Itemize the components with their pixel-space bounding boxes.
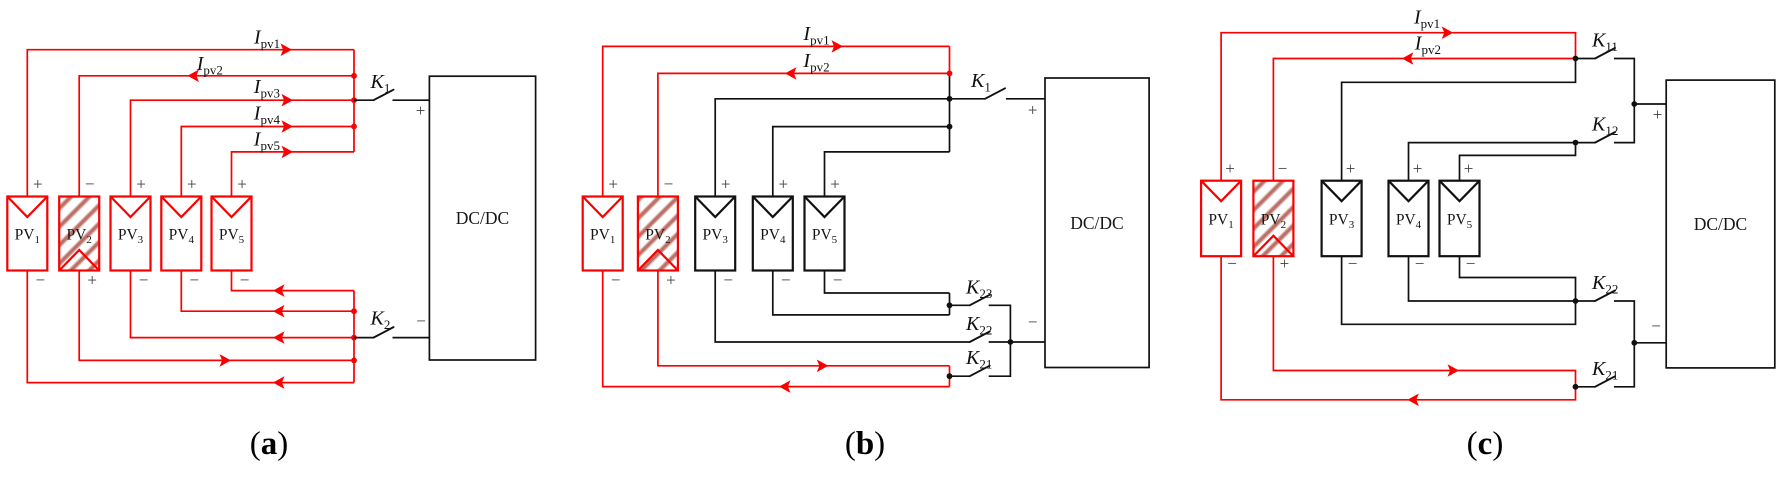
svg-text:+: + xyxy=(136,175,146,194)
svg-text:−: − xyxy=(1227,254,1237,273)
svg-text:−: − xyxy=(416,312,426,331)
svg-text:+: + xyxy=(830,175,840,194)
wire positive to DC/DC (c) xyxy=(1634,103,1666,105)
PV module PV2 (b) xyxy=(638,197,678,271)
arrow PV1 return (c) xyxy=(1407,394,1419,407)
wire PV3 top to K11 (c) xyxy=(1342,59,1576,181)
junction PV3/K1 (b) xyxy=(947,96,953,102)
arrow Ipv2 (a) xyxy=(188,70,200,83)
junction Ipv4/bus (a) xyxy=(351,124,357,130)
PV module PV4 (c) xyxy=(1389,181,1429,257)
switch K2 (a) blade xyxy=(374,327,394,338)
PV module PV2 (c) xyxy=(1253,181,1293,257)
PV module PV4 (b) xyxy=(753,197,793,271)
converter DC/DC (b) xyxy=(1045,78,1149,368)
wire PV1 bottom to bus (a) xyxy=(27,271,354,383)
wire K22 output (c) xyxy=(1614,301,1634,343)
svg-text:−: − xyxy=(1028,313,1038,332)
wire top bus red segment (b) xyxy=(949,46,951,73)
svg-text:+: + xyxy=(666,271,676,290)
PV module PV1 (a) xyxy=(7,197,47,271)
svg-text:(c): (c) xyxy=(1467,426,1504,462)
switch K11 (c) blade xyxy=(1595,48,1615,59)
wire PV5 top to K12 (c) xyxy=(1460,143,1576,181)
switch K21 (b) blade xyxy=(970,366,990,377)
PV module PV1 (c) xyxy=(1201,181,1241,257)
svg-text:−: − xyxy=(190,271,200,290)
junction K21 input (b) xyxy=(947,373,953,379)
wire negative to DC/DC (b) xyxy=(1010,341,1045,343)
svg-text:+: + xyxy=(33,175,43,194)
wire K12 output (c) xyxy=(1614,104,1634,143)
PV module PV1 (b) xyxy=(583,197,623,271)
wire top bus black segment (b) xyxy=(949,73,951,151)
wire K23 output (b) xyxy=(989,305,1011,342)
converter DC/DC (a) xyxy=(429,76,535,360)
svg-text:DC/DC: DC/DC xyxy=(456,208,509,228)
arrow Ipv2 (b) xyxy=(785,67,797,80)
wire PV5 bottom to K23 (b) xyxy=(825,271,950,294)
junction negative bus (b) xyxy=(1008,339,1014,345)
svg-text:−: − xyxy=(139,271,149,290)
junction positive bus (c) xyxy=(1631,101,1637,107)
wire PV5 bottom to bus (a) xyxy=(232,271,355,291)
wire PV1 top to bus (a) xyxy=(27,50,354,197)
svg-text:+: + xyxy=(1346,159,1356,178)
svg-text:DC/DC: DC/DC xyxy=(1694,214,1747,234)
wire K23 stub (b) xyxy=(950,304,970,306)
wire K11 stub (c) xyxy=(1576,58,1596,60)
wire PV5 top to bus (b) xyxy=(825,152,950,197)
svg-text:−: − xyxy=(781,271,791,290)
arrow PV5 return (a) xyxy=(273,284,285,297)
svg-text:−: − xyxy=(240,271,250,290)
svg-text:−: − xyxy=(1348,254,1358,273)
wire PV5 top to bus (a) xyxy=(232,152,355,197)
arrow PV1 return (a) xyxy=(273,376,285,389)
svg-text:(a): (a) xyxy=(250,426,289,462)
wire PV1 top Ipv1 (c) xyxy=(1221,33,1575,181)
PV module PV5 (a) xyxy=(212,197,252,271)
arrow Ipv5 (a) xyxy=(282,146,294,159)
switch K23 (b) blade xyxy=(970,295,990,306)
svg-text:−: − xyxy=(664,175,674,194)
junction K21 input (c) xyxy=(1573,384,1579,390)
switch K22 (c) blade xyxy=(1595,291,1615,302)
svg-text:+: + xyxy=(1028,101,1038,120)
switch K1 (b) blade xyxy=(985,88,1005,99)
arrow Ipv1 (a) xyxy=(281,43,293,56)
wire K21 output (c) xyxy=(1614,343,1634,387)
junction K23 input (b) xyxy=(947,302,953,308)
wire PV3 bottom to K22 (c) xyxy=(1342,256,1576,324)
wire K1 output to DC/DC (a) xyxy=(393,99,430,101)
junction K22 input (c) xyxy=(1573,298,1579,304)
svg-text:−: − xyxy=(1466,254,1476,273)
arrow Ipv2 (c) xyxy=(1402,52,1414,65)
arrow PV1 return (b) xyxy=(779,380,791,393)
arrow Ipv1 (c) xyxy=(1442,26,1454,39)
arrow PV2 return (b) xyxy=(817,360,829,373)
svg-text:DC/DC: DC/DC xyxy=(1070,213,1123,233)
wire K1 output to DC/DC (b) xyxy=(1006,98,1045,100)
wire K2 stub (a) xyxy=(354,337,374,339)
svg-text:(b): (b) xyxy=(845,426,885,462)
PV module PV3 (a) xyxy=(111,197,151,271)
junction Ipv2/bus (b) xyxy=(947,71,953,77)
wire bottom bus (a) xyxy=(353,291,355,383)
arrow Ipv4 (a) xyxy=(282,120,294,133)
wire PV2 bottom to K21 (b) xyxy=(658,271,950,366)
svg-text:−: − xyxy=(85,175,95,194)
wire PV4 top to K12 (c) xyxy=(1409,143,1576,181)
wire PV3 top to bus (a) xyxy=(131,100,355,196)
arrow Ipv1 (b) xyxy=(832,40,844,53)
junction K12 input (c) xyxy=(1573,140,1579,146)
wire PV5 bottom to K22 (c) xyxy=(1460,256,1576,301)
wire PV4 top to bus (b) xyxy=(773,127,950,197)
switch K12 (c) blade xyxy=(1595,132,1615,143)
wire PV1 bottom to K21 (b) xyxy=(603,271,950,387)
svg-text:+: + xyxy=(1464,159,1474,178)
wire PV2 bottom to K21 (c) xyxy=(1273,256,1575,387)
wire PV3 top to bus (b) xyxy=(715,99,949,197)
junction PV4 bottom (a) xyxy=(351,308,357,314)
converter DC/DC (c) xyxy=(1666,80,1775,368)
wire PV2 bottom to bus (a) xyxy=(79,271,354,361)
svg-text:+: + xyxy=(608,175,618,194)
junction negative bus (c) xyxy=(1631,340,1637,346)
junction Ipv2/bus (a) xyxy=(351,73,357,79)
svg-text:+: + xyxy=(416,101,426,120)
junction PV3/K2 (a) xyxy=(351,335,357,341)
PV module PV3 (b) xyxy=(695,197,735,271)
svg-text:+: + xyxy=(1653,105,1663,124)
svg-text:+: + xyxy=(1280,254,1290,273)
wire K1 stub (a) xyxy=(354,99,374,101)
junction PV4/bus (b) xyxy=(947,124,953,130)
svg-text:−: − xyxy=(1651,316,1661,335)
svg-text:−: − xyxy=(1278,159,1288,178)
junction K11 input (c) xyxy=(1573,56,1579,62)
wire K1 stub (b) xyxy=(950,98,986,100)
PV module PV4 (a) xyxy=(161,197,201,271)
switch K21 (c) blade xyxy=(1595,376,1615,387)
wire top bus (a) xyxy=(353,50,355,152)
wire PV3 bottom to bus (a) xyxy=(131,271,355,338)
wire K23 riser (b) xyxy=(949,293,951,315)
PV module PV5 (c) xyxy=(1440,181,1480,257)
switch K22 (b) blade xyxy=(970,332,990,343)
wire K21 stub (c) xyxy=(1576,386,1596,388)
wire K21 output (b) xyxy=(989,342,1011,376)
PV module PV2 (a) xyxy=(59,197,99,271)
svg-text:−: − xyxy=(1415,254,1425,273)
wire K12 stub (c) xyxy=(1576,142,1596,144)
wire PV3 bottom to K22 (b) xyxy=(715,271,970,343)
switch K1 (a) blade xyxy=(374,90,394,101)
PV module PV3 (c) xyxy=(1322,181,1362,257)
wire PV4 bottom to K23 (b) xyxy=(773,271,950,315)
arrow PV4 return (a) xyxy=(273,305,285,318)
wire PV1 top to bus (b) xyxy=(603,46,950,196)
arrow PV3 return (a) xyxy=(273,331,285,344)
wire K2 output to DC/DC (a) xyxy=(393,337,430,339)
wire K22 output (b) xyxy=(989,341,1011,343)
svg-text:+: + xyxy=(187,175,197,194)
svg-text:+: + xyxy=(237,175,247,194)
arrow PV2 return (a) xyxy=(220,354,232,367)
wire PV1 bottom to K21 (c) xyxy=(1221,256,1575,400)
svg-text:+: + xyxy=(721,175,731,194)
junction Ipv3/K1 (a) xyxy=(351,97,357,103)
svg-text:−: − xyxy=(611,271,621,290)
wire PV4 bottom to K22 (c) xyxy=(1409,256,1576,301)
wire K11 output (c) xyxy=(1614,59,1634,105)
junction PV2 bottom (a) xyxy=(351,358,357,364)
svg-text:+: + xyxy=(1413,159,1423,178)
wire PV2 top Ipv2 (c) xyxy=(1273,59,1575,181)
wire PV2 top to bus (b) xyxy=(658,73,950,196)
wire K22 stub (c) xyxy=(1576,300,1596,302)
wire PV4 bottom to bus (a) xyxy=(181,271,354,312)
svg-text:−: − xyxy=(36,271,46,290)
svg-text:+: + xyxy=(1225,159,1235,178)
wire negative to DC/DC (c) xyxy=(1634,342,1666,344)
svg-text:+: + xyxy=(87,271,97,290)
svg-text:−: − xyxy=(833,271,843,290)
arrow PV2 return (c) xyxy=(1448,364,1460,377)
wire K21 red riser (b) xyxy=(949,366,951,387)
PV module PV5 (b) xyxy=(805,197,845,271)
wire PV2 top to bus (a) xyxy=(79,76,354,197)
svg-text:−: − xyxy=(723,271,733,290)
svg-text:+: + xyxy=(779,175,789,194)
wire K21 stub (b) xyxy=(950,375,970,377)
wire PV4 top to bus (a) xyxy=(181,127,354,197)
arrow Ipv3 (a) xyxy=(282,94,294,107)
